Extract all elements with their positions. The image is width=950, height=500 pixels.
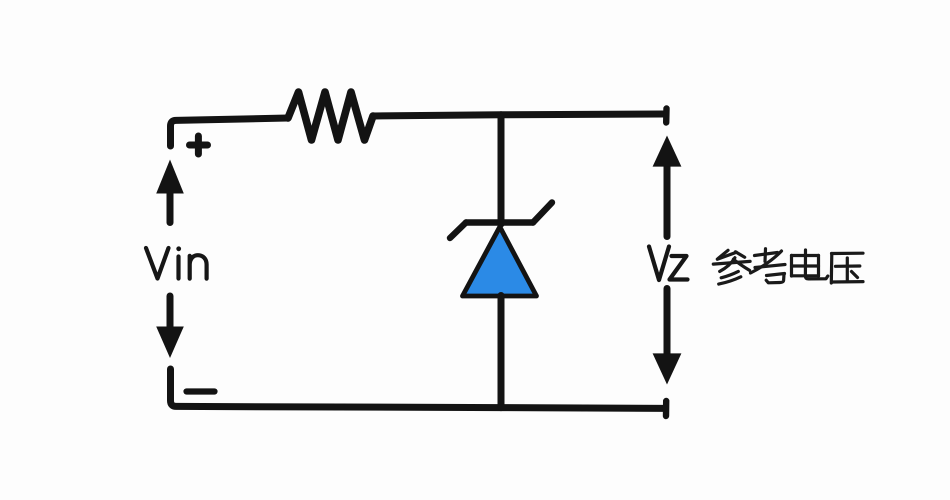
- wire bottom-left corner and - terminal stub: [171, 369, 502, 408]
- terminal tick bottom-right: [663, 401, 670, 416]
- Vz down arrowhead: [653, 353, 682, 384]
- hanzi YA (压): [831, 253, 863, 283]
- zener bar left bend: [450, 223, 466, 239]
- wire top-left corner and + terminal stub: [171, 118, 289, 146]
- hanzi CAN (参): [713, 250, 750, 284]
- terminal tick top-right: [663, 109, 670, 123]
- wire bottom right segment: [501, 404, 664, 412]
- wire top right segment: [373, 114, 664, 116]
- Vz up arrow shaft: [664, 164, 671, 237]
- label Vin : letter V: [146, 248, 169, 279]
- hanzi KAO (考): [751, 249, 786, 283]
- label Vin : letter i: [176, 257, 180, 279]
- Vin down arrow shaft: [167, 296, 174, 330]
- zener bar right bend: [533, 203, 552, 223]
- wire zener top lead: [498, 115, 505, 224]
- plus symbol (+): [190, 136, 208, 154]
- label Vz : letter z: [670, 256, 688, 280]
- Vz up arrowhead: [653, 136, 682, 167]
- wire zener bottom lead: [498, 296, 505, 408]
- Vin down arrowhead: [156, 327, 184, 359]
- Vin up arrowhead: [156, 160, 184, 194]
- zener diode D1 cathode bar: [466, 219, 533, 225]
- label Vin : letter n: [190, 255, 207, 278]
- hanzi DIAN (电): [792, 250, 828, 279]
- Vz down arrow shaft: [664, 289, 671, 357]
- resistor R1: [288, 92, 373, 140]
- Vin up arrow shaft: [167, 190, 174, 223]
- label Vz : letter V: [649, 247, 669, 281]
- minus symbol (-): [187, 388, 215, 394]
- zener diode D1 triangle (anode): [463, 227, 537, 296]
